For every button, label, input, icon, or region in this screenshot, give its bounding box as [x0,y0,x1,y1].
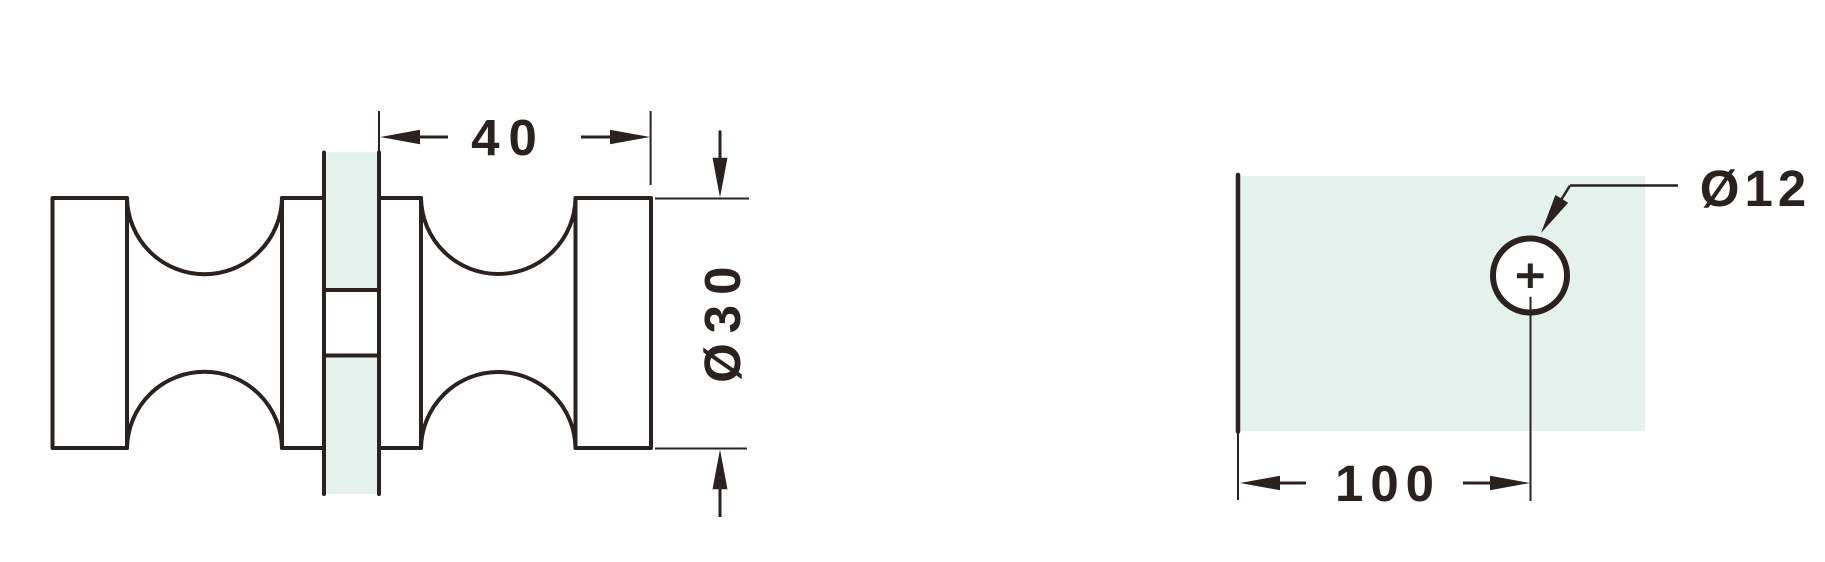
svg-text:40: 40 [471,109,546,166]
knob right neck top arc [421,198,576,274]
svg-text:Ø30: Ø30 [694,256,751,382]
dim D30 top extension line [655,198,749,200]
knob right cap [576,198,652,448]
dim 40 left extension line [378,111,380,152]
hole circle [1493,239,1567,313]
glass pane left edge line [322,153,326,495]
dim 40 left arrow [380,130,420,144]
hole center cross [1517,273,1544,278]
svg-text:Ø12: Ø12 [1700,160,1811,217]
knob right neck bottom arc [421,372,576,448]
dim 100 right arrow [1490,476,1530,490]
glass pane right edge line [377,153,381,495]
dim D30 bottom extension line [655,448,747,450]
glass hole top line [322,288,381,292]
knob left neck top arc [127,198,282,274]
hole center line down [1530,297,1532,501]
dim D30 bottom arrow [719,489,722,517]
glass hole (white gap) [321,292,382,354]
leader line horizontal [1570,184,1678,187]
knob left cap [53,198,128,448]
glass hole bottom line [322,354,381,358]
leader line diagonal [1545,186,1570,227]
svg-text:100: 100 [1335,455,1441,512]
dim 40 right arrow [610,130,650,144]
knob left neck bottom arc [127,372,282,448]
glass pane fill (edge view) [324,153,379,495]
glass panel fill (face view) [1240,176,1645,431]
dim 40 right extension line [650,111,652,185]
knob left flange [282,198,324,448]
dim 100 left arrow [1240,476,1280,490]
dim 100 left extension line [1237,432,1239,500]
glass panel left edge [1236,175,1241,432]
knob right flange [379,198,421,448]
leader arrowhead [1541,195,1568,233]
dim D30 top arrow [719,131,722,160]
